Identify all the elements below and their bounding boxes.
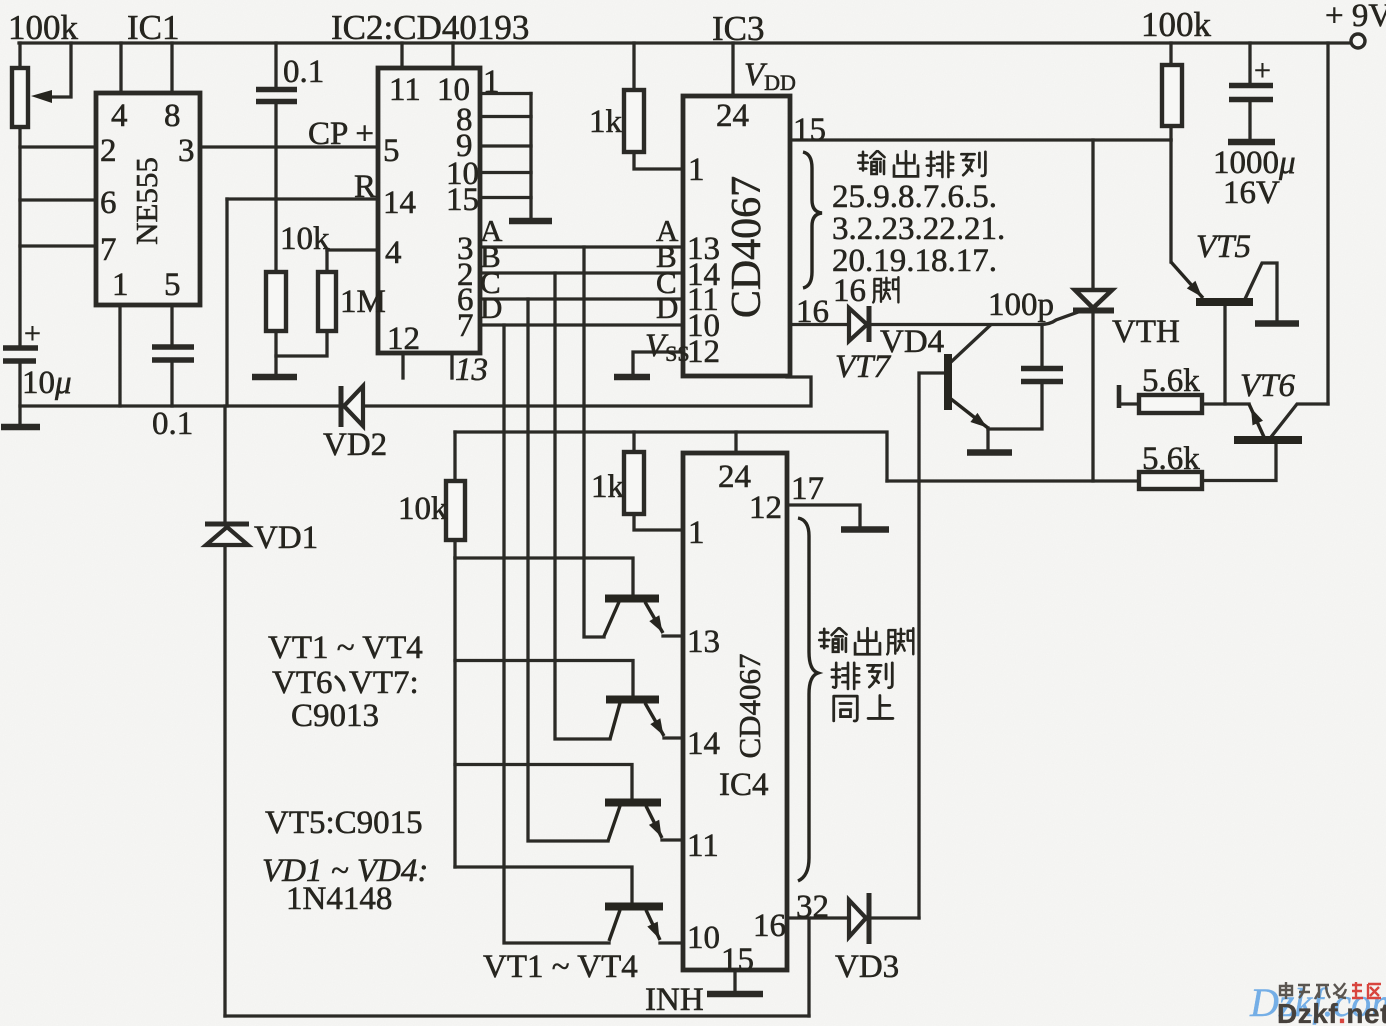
svg-text:32: 32 (796, 889, 829, 925)
capacitor C4 100p plates (1021, 369, 1063, 382)
transistor VT2 emitter arrowhead (650, 718, 663, 735)
transistor VT3 C9013 (605, 799, 661, 807)
wire IC4 pin24 stub (734, 432, 737, 453)
svg-text:4: 4 (385, 235, 402, 271)
wire base bias column (453, 558, 456, 867)
svg-text:1: 1 (112, 267, 129, 303)
resistor RP1 100k potentiometer body (12, 68, 28, 127)
wire D drop to VT4 collector (504, 325, 609, 943)
transistor VT4 emitter arrowhead (647, 922, 659, 939)
svg-text:16: 16 (833, 273, 866, 309)
resistor R9 5.6k body (1139, 472, 1202, 489)
wire 0.1 cap (pin5) lower stem (170, 363, 173, 406)
svg-text:VT7:: VT7: (349, 665, 419, 701)
diode VD4 (1N4148) (867, 306, 872, 342)
svg-text:3: 3 (178, 133, 195, 169)
svg-text:IC4: IC4 (719, 767, 769, 803)
ic U2 CD40193 box (378, 68, 480, 353)
ground GND4 (IC3 Vss) (614, 374, 650, 380)
ground GND2 (CD40193 ladder) (509, 218, 552, 224)
wire A drop to VT1 collector (584, 247, 604, 637)
svg-text:10k: 10k (398, 491, 448, 527)
transistor VT4 C9013 (605, 903, 663, 911)
svg-text:D: D (480, 290, 502, 325)
wire VT1 base rail (455, 558, 633, 595)
ground GND1 (NE555) (1, 424, 40, 430)
svg-text:10μ: 10μ (22, 365, 72, 401)
wire NE555 pin4 stub (119, 43, 122, 93)
wire NE555 pin7 (20, 244, 96, 247)
wire 100k-r node down to VT5 emitter (1169, 140, 1172, 262)
wire 1k-a top stem (632, 43, 635, 90)
connector terminal upper 5.6k (1117, 385, 1122, 408)
svg-text:CD4067: CD4067 (724, 176, 770, 318)
wire B bus IC2 pin2 to IC3 pin14 (480, 271, 683, 274)
svg-text:7: 7 (457, 308, 474, 344)
wire +9V top rail (19, 41, 1350, 44)
resistor R5 100k body (1162, 65, 1182, 126)
wire pot bottom to left column (18, 127, 21, 345)
wire 100p bottom stem to VT7 emitter (988, 384, 1042, 429)
svg-text:100k: 100k (8, 8, 79, 47)
wire 5.6k upper left terminal lead (1120, 402, 1139, 405)
svg-text:INH: INH (645, 982, 704, 1018)
wire 1k-b top stem (632, 432, 635, 452)
wire 100k-r bottom stem (1169, 126, 1172, 140)
wire NE555 pin6 (20, 198, 96, 201)
svg-text:10k: 10k (280, 221, 330, 257)
wire bottom rail (225, 1014, 809, 1017)
annotation chinese tong-shang (834, 696, 858, 721)
svg-text:7: 7 (100, 232, 117, 268)
resistor R4 1k body (624, 90, 644, 152)
wire NE555 pin3 to CD40193 CP (200, 145, 378, 148)
svg-text:13: 13 (687, 624, 720, 660)
svg-text:D: D (656, 290, 678, 325)
svg-text:VT1 ~ VT4: VT1 ~ VT4 (483, 949, 638, 985)
svg-text:12: 12 (687, 334, 720, 370)
wire right rail (1326, 43, 1329, 404)
wire VT3 emitter to IC4 pin11 (662, 838, 683, 841)
transistor VT2 C9013 (606, 696, 659, 704)
ic U1 NE555 box (96, 93, 200, 305)
svg-text:100k: 100k (1141, 5, 1212, 44)
wire ground rail y406 left of VD2 (20, 404, 338, 407)
transistor VT3 emitter arrowhead (649, 820, 662, 837)
resistor R2 10k body (266, 272, 286, 331)
wire 100p top stem (1040, 325, 1043, 367)
wire D bus IC2 pin7 to IC3 pin10 (480, 323, 683, 326)
wire IC3 pin15 line to 100k (790, 138, 1171, 141)
node +9V terminal circle (1351, 34, 1365, 48)
svg-text:3.2.23.22.21.: 3.2.23.22.21. (832, 211, 1005, 247)
svg-text:R: R (354, 169, 376, 205)
svg-text:VD1: VD1 (254, 520, 318, 556)
svg-text:IC3: IC3 (712, 9, 765, 48)
wire VT7 base line down to VD3 (919, 373, 948, 918)
wire A bus IC2 pin3 to IC3 pin13 (480, 245, 683, 248)
wire CD40193 R pin14 (227, 197, 378, 200)
ic U4 CD4067 box (683, 453, 787, 970)
svg-text:12: 12 (749, 490, 782, 526)
svg-text:VTH: VTH (1112, 314, 1180, 350)
svg-text:8: 8 (164, 98, 181, 134)
thyristor VTH (1073, 290, 1114, 311)
transistor VT6 emitter arrowhead (points up-left) (1251, 408, 1263, 425)
wire VT5 base stem (1223, 305, 1226, 404)
svg-text:CD4067: CD4067 (732, 653, 767, 758)
svg-text:IC1: IC1 (127, 8, 180, 47)
svg-text:2: 2 (100, 133, 117, 169)
capacitor C5 1000u plates (1229, 86, 1273, 100)
svg-text:6: 6 (100, 185, 117, 221)
wire VT4 emitter to IC4 pin10 (660, 941, 683, 944)
wire CD40193 pin4 to 1M (327, 248, 378, 251)
svg-text:VT1 ~ VT4: VT1 ~ VT4 (268, 630, 423, 666)
transistor VT5 emitter arrowhead (1187, 281, 1202, 297)
wire IC3 Vss to ground (633, 352, 683, 374)
svg-text:1k: 1k (589, 104, 623, 140)
svg-text:0.1: 0.1 (283, 54, 324, 90)
svg-text:1: 1 (688, 515, 705, 551)
svg-text:C9013: C9013 (291, 698, 379, 734)
brace for IC4 output pins (798, 518, 818, 881)
svg-text:14: 14 (687, 726, 720, 762)
wire 100k-r top stem (1169, 43, 1172, 65)
svg-text:CP +: CP + (308, 116, 374, 152)
wire VD3 to VT7 base line (871, 916, 919, 919)
svg-text:13: 13 (455, 352, 488, 388)
wire CD40193 pin8 rung (480, 115, 531, 118)
annotation chinese shu-chu-pai-lie (858, 151, 884, 174)
svg-text:VT6: VT6 (272, 665, 333, 701)
svg-text:1: 1 (688, 152, 705, 188)
svg-text:+ 9V: + 9V (1325, 0, 1386, 34)
svg-text:1N4148: 1N4148 (286, 881, 392, 917)
wire 10u lower stem and ground stem (18, 364, 21, 424)
transistor VT7 C9013 (944, 354, 952, 410)
wire B drop to VT2 collector (555, 273, 610, 739)
transistor VT5 C9015 (1196, 298, 1253, 306)
ic U3 CD4067 box (683, 96, 790, 376)
svg-text:5.6k: 5.6k (1142, 363, 1200, 399)
svg-text:1: 1 (483, 64, 500, 100)
brace for IC3 output pins (803, 152, 822, 288)
wire 0.1 cap IC2 bottom stem to 10k (274, 104, 277, 272)
svg-text:5: 5 (164, 267, 181, 303)
wire NE555 pin5 stub to cap (170, 305, 173, 344)
wire 1M top stem (325, 250, 328, 272)
wire 1k-b bottom to IC4 pin1 (634, 514, 683, 530)
wire CD40193 pin11 stub (400, 43, 403, 68)
svg-text:0.1: 0.1 (152, 406, 193, 442)
svg-text:16: 16 (796, 294, 829, 330)
wire ladder vertical to ground (529, 94, 532, 219)
svg-text:5: 5 (383, 133, 400, 169)
annotation chinese shu-chu-jiao (output pins) (819, 628, 846, 652)
annotation chinese pai-lie (832, 663, 859, 689)
wire 10k-1M bottom join (276, 331, 327, 356)
svg-text:VT7: VT7 (835, 349, 892, 385)
wire NE555 pin8 stub (170, 43, 173, 93)
capacitor C1 10u plates (3, 348, 38, 361)
wire VT1 emitter to IC4 pin13 (663, 634, 683, 637)
wire VT7 emitter to ground (986, 428, 989, 450)
svg-text:15: 15 (793, 112, 826, 148)
wire CD40193 pin1 rung (480, 92, 531, 95)
resistor R8 5.6k body (1139, 395, 1202, 413)
wire VT2 emitter to IC4 pin14 (664, 736, 683, 739)
svg-text:Dzkf.net: Dzkf.net (1277, 998, 1386, 1026)
capacitor C2 0.1 plates (NE555 pin5) (152, 347, 194, 360)
svg-text:VT6: VT6 (1240, 368, 1296, 404)
wire IC4 pin12 to ground (787, 505, 860, 526)
wire VT4 base rail (455, 867, 632, 903)
wire IC4 pin16 to VD3 (787, 916, 848, 919)
wire 10k-b bottom stem (453, 540, 456, 558)
ground GND7 (INH) (707, 991, 763, 997)
svg-text:+: + (24, 317, 41, 350)
svg-text:24: 24 (716, 98, 749, 134)
wire VTH anode from pin15 line (1091, 140, 1094, 289)
svg-text:15: 15 (446, 182, 479, 218)
wire 1000u bottom stem (1248, 102, 1251, 139)
wire 1k-a bottom to IC3 pin1 (634, 152, 683, 169)
wire CD40193 pin13 stub (450, 353, 453, 378)
svg-text:NE555: NE555 (129, 157, 164, 245)
wire 1000u top stem (1248, 43, 1251, 83)
wire pot wiper from rail (50, 43, 71, 97)
wire R-line down to ground rail (225, 199, 228, 406)
ground GND3 (10k/1M) (252, 374, 297, 380)
wire CD40193 pin10 stub (451, 43, 454, 68)
wire IC3 Vdd stub (731, 43, 734, 96)
svg-text:12: 12 (387, 321, 420, 357)
wire CD40193 pin12 stub (401, 353, 404, 378)
wire C bus IC2 pin6 to IC3 pin11 (480, 297, 683, 300)
watermark chinese dian-zi-kai-fa (1280, 982, 1346, 999)
svg-text:14: 14 (383, 185, 416, 221)
wire 0.1 cap IC2 top stem (274, 43, 277, 87)
wire ground rail y406 right of VD2 (362, 377, 811, 406)
wire VT2 base rail (455, 661, 633, 697)
capacitor C3 0.1 plates (reset) (256, 90, 297, 102)
svg-text:24: 24 (718, 459, 751, 495)
svg-text:16V: 16V (1223, 175, 1280, 211)
resistor R3 1M body (318, 272, 336, 331)
wire y481 to lower 5.6k (887, 479, 1139, 482)
wire 10k ground stem (274, 356, 277, 374)
svg-text:VT5:C9015: VT5:C9015 (265, 805, 423, 841)
wire C drop to VT3 collector (528, 299, 608, 841)
wire branch down to bottom rail (807, 918, 810, 1016)
svg-text:1M: 1M (340, 284, 386, 320)
wire mid rail y432 (455, 432, 887, 481)
ground GND8 (1000u negative) (1228, 139, 1275, 145)
wire CD40193 pin9 rung (480, 144, 531, 147)
wire CD40193 pin15 rung (480, 196, 531, 199)
wire VT6 base stem (1202, 443, 1276, 481)
diode VD1 (1N4148) (205, 522, 249, 527)
svg-text:5.6k: 5.6k (1142, 441, 1200, 477)
wire 10k-b top stem (453, 432, 456, 481)
transistor VT7 emitter arrowhead (970, 413, 987, 428)
resistor R6 10k body (446, 481, 465, 540)
transistor VT1 C9013 (605, 595, 659, 603)
transistor VT6 C9013 (1234, 436, 1302, 444)
wire 5.6k upper right lead (1202, 402, 1249, 405)
svg-text:VD3: VD3 (835, 949, 899, 985)
wire pot top stem (18, 43, 21, 68)
resistor R7 1k body (624, 452, 644, 514)
ground GND5 (VT7 emitter) (967, 449, 1012, 455)
wire VT3 base rail (455, 765, 632, 800)
ground GND9 (VT5 collector) (1255, 320, 1299, 326)
wire INH stub (733, 970, 736, 991)
svg-text:1k: 1k (591, 469, 625, 505)
svg-text:4: 4 (111, 98, 128, 134)
diode VD2 (1N4148) (339, 386, 344, 427)
ground GND6 (IC4 pin17) (841, 526, 889, 532)
wire CD40193 pin10b rung (480, 171, 531, 174)
wire VT7 collector tie (951, 326, 990, 363)
svg-text:15: 15 (721, 942, 754, 978)
svg-text:+: + (1254, 54, 1271, 87)
svg-text:11: 11 (389, 72, 421, 108)
svg-text:25.9.8.7.6.5.: 25.9.8.7.6.5. (832, 179, 997, 215)
wire VD1 column (223, 406, 226, 1016)
wire NE555 pin1 stub down (118, 305, 121, 406)
svg-text:100p: 100p (988, 287, 1054, 323)
potentiometer wiper arrowhead (31, 90, 52, 103)
svg-text:17: 17 (791, 471, 824, 507)
svg-text:VD2: VD2 (323, 427, 387, 463)
svg-text:VT5: VT5 (1196, 229, 1251, 265)
wire VTH cathode down to 5.6k line (1091, 313, 1094, 481)
transistor VT1 emitter arrowhead (649, 615, 662, 632)
wire VT6 collector from rail (1271, 404, 1328, 437)
diode VD3 (1N4148) (867, 893, 872, 944)
wire NE555 pin2 (20, 145, 96, 148)
wire IC3 pin16 line with VTH gate (790, 311, 1081, 325)
svg-text:IC2:CD40193: IC2:CD40193 (331, 8, 529, 47)
wire VT5 collector to ground (1245, 263, 1277, 320)
svg-text:10: 10 (687, 920, 720, 956)
svg-text:11: 11 (687, 828, 719, 864)
svg-text:16: 16 (753, 908, 786, 944)
